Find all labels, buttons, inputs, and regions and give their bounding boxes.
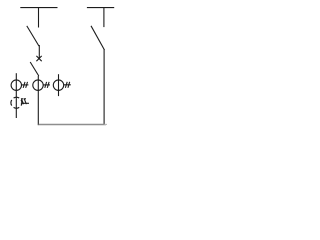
current transformer CT2 (33, 80, 43, 90)
current transformer CT4 (dashed, optional) (11, 97, 22, 108)
CT4 secondary stub with arrow marks (21, 99, 29, 105)
circuit breaker QF1 blade (open) (30, 62, 39, 76)
wire: vertical through CT1 (15, 73, 17, 118)
disconnector QS1 blade (open) (27, 26, 39, 46)
current transformer CT1 (11, 80, 21, 90)
wire: breaker to bottom rail through CT2 (37, 76, 39, 125)
disconnector QS2 blade (open) (91, 26, 104, 50)
bottom rail (gray panel edge) (38, 124, 107, 125)
wire: drop from busbar B1 (38, 8, 40, 28)
CT2 secondary stub with double-slash (43, 82, 50, 88)
wire: vertical through CT3 (58, 74, 60, 96)
CT3 secondary stub with double-slash (64, 82, 71, 88)
busbar B2 (right) (87, 7, 114, 9)
wire: QS1 to breaker contact (38, 45, 40, 59)
current transformer CT3 (53, 80, 63, 90)
busbar B1 (left) (20, 7, 57, 9)
wire: drop from busbar B2 (103, 8, 105, 28)
wire: QS2 down to bottom rail (103, 49, 105, 125)
circuit breaker QF1 fixed-contact cross (36, 56, 41, 61)
CT1 secondary stub with double-slash (22, 82, 29, 88)
